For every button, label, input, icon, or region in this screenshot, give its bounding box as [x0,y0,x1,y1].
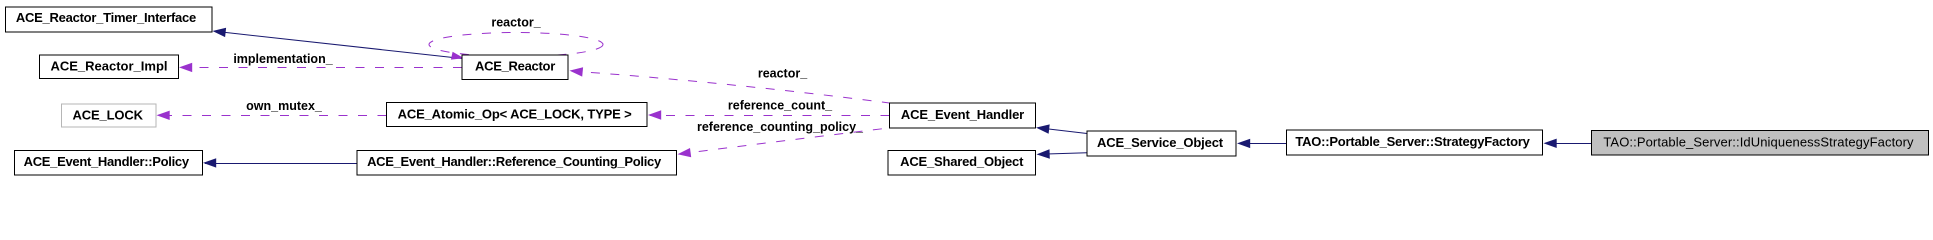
node ACE_Reactor_Timer_Interface [6,7,213,32]
svg-text:ACE_Shared_Object: ACE_Shared_Object [900,154,1024,169]
node ACE_Atomic_Op< ACE_LOCK, TYPE > [387,103,648,127]
wire: inheritance edge TAO::Portable_Server::StrategyFactory -> ACE_Service_Object [1237,139,1287,148]
node ACE_Shared_Object [888,150,1036,175]
node ACE_Event_Handler::Reference_Counting_Policy [357,150,677,175]
svg-text:ACE_Reactor_Timer_Interface: ACE_Reactor_Timer_Interface [16,10,196,25]
wire: dashed self-loop reactor_ on ACE_Reactor [429,16,603,60]
svg-text:reactor_: reactor_ [491,16,541,30]
node ACE_Reactor_Impl [40,55,179,79]
svg-text:ACE_Reactor: ACE_Reactor [475,59,555,74]
svg-text:reference_count_: reference_count_ [728,99,833,113]
wire: dashed usage edge own_mutex_ (ACE_Atomic_Op -> ACE_LOCK) [157,99,387,120]
svg-text:ACE_Event_Handler::Policy: ACE_Event_Handler::Policy [24,154,190,169]
wire: dashed usage edge reactor_ (ACE_Event_Handler -> ACE_Reactor) [570,67,890,104]
wire: inheritance edge ACE_Reactor -> ACE_Reactor_Timer_Interface [213,28,463,59]
svg-text:ACE_Service_Object: ACE_Service_Object [1097,135,1224,150]
wire: dashed usage edge reference_counting_policy_ (ACE_Event_Handler -> Reference_Counting_Policy) [678,120,890,157]
wire: dashed usage edge implementation_ (ACE_Reactor -> ACE_Reactor_Impl) [179,52,462,72]
node ACE_Event_Handler::Policy [15,150,203,175]
wire: inheritance edge ACE_Service_Object -> ACE_Shared_Object [1037,149,1088,158]
svg-text:ACE_Event_Handler: ACE_Event_Handler [901,107,1024,122]
node ACE_LOCK (template parameter, grey border) [62,104,157,127]
node TAO::Portable_Server::StrategyFactory [1287,130,1543,155]
wire: inheritance edge Reference_Counting_Policy -> ACE_Event_Handler::Policy [203,158,357,167]
wire: inheritance edge IdUniquenessStrategyFactory -> StrategyFactory [1544,139,1592,148]
svg-text:reference_counting_policy_: reference_counting_policy_ [697,120,864,134]
svg-text:ACE_Reactor_Impl: ACE_Reactor_Impl [50,58,167,73]
wire: inheritance edge ACE_Service_Object -> ACE_Event_Handler [1036,124,1087,133]
svg-text:TAO::Portable_Server::Strategy: TAO::Portable_Server::StrategyFactory [1295,134,1530,149]
wire: dashed usage edge reference_count_ (ACE_Event_Handler -> ACE_Atomic_Op) [648,99,890,120]
svg-text:reactor_: reactor_ [758,67,808,81]
svg-text:implementation_: implementation_ [233,52,333,66]
svg-text:TAO::Portable_Server::IdUnique: TAO::Portable_Server::IdUniquenessStrate… [1603,135,1914,150]
node TAO::Portable_Server::IdUniquenessStrategyFactory (current class, grey fill) [1592,130,1929,155]
svg-text:own_mutex_: own_mutex_ [246,99,323,113]
node ACE_Event_Handler [890,103,1036,128]
node ACE_Service_Object [1087,131,1236,156]
svg-text:ACE_Event_Handler::Reference_C: ACE_Event_Handler::Reference_Counting_Po… [367,154,662,169]
svg-text:ACE_LOCK: ACE_LOCK [73,107,144,122]
node ACE_Reactor [462,55,568,79]
svg-text:ACE_Atomic_Op< ACE_LOCK, TYPE: ACE_Atomic_Op< ACE_LOCK, TYPE > [398,107,633,122]
